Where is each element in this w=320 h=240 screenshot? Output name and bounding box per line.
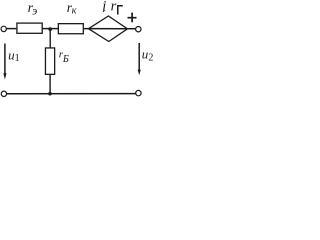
- resistor R3 (r_Б): [45, 48, 54, 74]
- resistor R2 (r_к): [58, 24, 83, 34]
- wire R1 to R2: [43, 28, 59, 30]
- input terminal top-left: [1, 26, 6, 31]
- bottom rail wire: [7, 93, 136, 95]
- output terminal top-right: [136, 27, 141, 32]
- svg-text:Б: Б: [62, 54, 69, 65]
- svg-text:i: i: [102, 0, 106, 15]
- voltage arrow u1: [4, 44, 6, 76]
- voltage arrow u2: [138, 43, 140, 71]
- svg-text:2: 2: [148, 52, 153, 63]
- svg-text:к: к: [72, 6, 77, 17]
- plus sign polarity: [128, 17, 137, 19]
- node junction dot bottom: [48, 92, 52, 96]
- svg-text:1: 1: [15, 53, 20, 64]
- svg-text:r: r: [111, 0, 117, 15]
- svg-text:э: э: [32, 4, 37, 18]
- wire R2 to dependent source and through it to right terminal: [84, 28, 136, 30]
- wire top rail: terminal to R1: [6, 28, 16, 30]
- input terminal bottom-left: [1, 91, 6, 96]
- subscript Г: [118, 6, 123, 15]
- resistor R1 (r_э): [17, 23, 42, 33]
- node junction dot top: [48, 27, 52, 31]
- wire R3 down to bottom rail: [49, 75, 51, 94]
- dependent source E1 diamond: [89, 16, 128, 42]
- wire vertical from top node down to R3: [49, 29, 51, 48]
- output terminal bottom-right: [136, 90, 141, 95]
